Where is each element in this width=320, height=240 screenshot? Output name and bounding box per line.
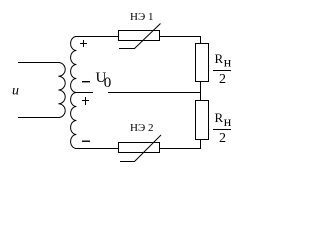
plus sign below center tap [82, 97, 89, 105]
svg-text:н: н [224, 115, 232, 130]
wire bottom rail: NE2 to load stub [159, 148, 201, 149]
svg-text:2: 2 [219, 131, 226, 146]
nonlinear element NE1 diagonal stroke [135, 24, 161, 49]
transformer T1 secondary winding lower half [71, 93, 77, 149]
wire top rail: NE1 to load stub [159, 36, 201, 37]
wire center tap lead right segment [108, 92, 201, 93]
svg-text:2: 2 [219, 72, 226, 87]
minus sign above center tap [82, 81, 90, 82]
svg-text:НЭ 1: НЭ 1 [130, 11, 153, 23]
wire primary top lead [18, 62, 60, 63]
svg-text:н: н [224, 55, 232, 70]
wire center tap lead left segment [76, 92, 93, 93]
nonlinear element NE2 body [118, 142, 160, 162]
nonlinear element NE2 diagonal stroke [135, 135, 162, 162]
transformer T1 secondary winding upper half [71, 37, 77, 93]
svg-text:НЭ 2: НЭ 2 [130, 122, 153, 134]
svg-text:R: R [215, 51, 224, 66]
wire bottom rail: secondary bottom to NE2 [75, 148, 119, 149]
lower load resistor body [195, 100, 209, 140]
minus sign at secondary bottom [82, 141, 90, 142]
wire top rail: secondary top to NE1 [75, 36, 119, 37]
plus sign at secondary top [80, 40, 87, 47]
svg-text:R: R [215, 110, 224, 125]
wire stub down to upper load resistor [200, 36, 201, 44]
svg-text:0: 0 [104, 75, 112, 91]
nonlinear element NE1 body [118, 30, 160, 49]
wire stub between load resistors [200, 82, 201, 100]
wire primary bottom lead [18, 117, 60, 118]
wire stub below lower load resistor [200, 140, 201, 148]
upper load resistor body [195, 43, 209, 82]
svg-text:u: u [12, 84, 19, 99]
transformer T1 primary winding [58, 63, 65, 118]
